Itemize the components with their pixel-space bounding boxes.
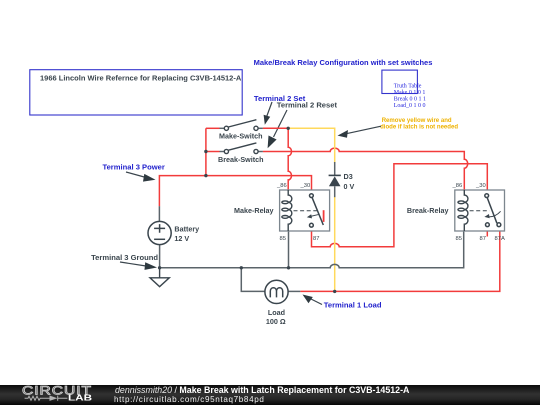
- svg-text:Terminal 1 Load: Terminal 1 Load: [324, 301, 382, 310]
- svg-text:Terminal 3 Ground: Terminal 3 Ground: [91, 253, 158, 262]
- junction node: make switch to yellow: [287, 127, 290, 130]
- truth table box: [382, 70, 418, 93]
- svg-text:_30: _30: [475, 183, 486, 189]
- svg-text:12 V: 12 V: [174, 234, 189, 243]
- wire: load right gray stub: [288, 290, 300, 292]
- wire: Make-Relay pin 85 to ground rail: [288, 231, 290, 268]
- wire: break-switch to Break-Relay pin 86 (hops yellow and node line): [263, 148, 468, 190]
- Make-Relay dashed link: [294, 210, 318, 212]
- svg-text:_30: _30: [300, 183, 311, 189]
- Break-Relay coil: [458, 190, 468, 231]
- CircuitLab logo: [0, 385, 100, 405]
- junction node: battery ground: [158, 266, 161, 269]
- svg-text:1966 Lincoln Wire Refernce for: 1966 Lincoln Wire Refernce for Replacing…: [40, 73, 242, 82]
- svg-text:_86: _86: [452, 183, 463, 189]
- wire: yellow latch wire below diode to load line: [334, 197, 336, 292]
- arrow Terminal 3 Power: [126, 172, 156, 182]
- yellow note text: Remove yellow wire: [380, 118, 458, 131]
- Break-Relay box: [455, 190, 505, 231]
- svg-text:85: 85: [280, 236, 286, 242]
- wire: ground rail (hops yellow) to Break-Relay pin 85: [160, 231, 464, 268]
- svg-text:Break-Relay: Break-Relay: [407, 206, 449, 215]
- wire: switch left vertical: [205, 128, 207, 175]
- svg-text:Truth Table: Truth Table: [394, 83, 422, 89]
- load lamp LOAD: [265, 280, 288, 303]
- svg-text:diode if latch is not needed: diode if latch is not needed: [380, 125, 458, 131]
- svg-text:Terminal 3 Power: Terminal 3 Power: [103, 162, 165, 171]
- junction node: load branch: [240, 266, 243, 269]
- make-switch SW1: [224, 120, 258, 131]
- battery V1: [148, 221, 171, 244]
- wire: break-switch right gray stub: [258, 151, 263, 153]
- svg-text:100 Ω: 100 Ω: [266, 317, 286, 326]
- svg-text:LAB: LAB: [68, 394, 92, 403]
- arrow Terminal 2 Reset: [268, 110, 287, 148]
- wire: battery top lead: [158, 206, 160, 221]
- Make-Relay coil: [282, 190, 292, 231]
- svg-text:_86: _86: [276, 183, 287, 189]
- svg-text:87: 87: [313, 236, 319, 242]
- arrow Terminal 2 Set: [264, 102, 272, 125]
- svg-text:D3: D3: [344, 172, 353, 181]
- wire: make-switch right lead to node: [258, 127, 263, 129]
- wire: load branch from ground rail: [241, 268, 265, 292]
- wire: load line to Break-Relay pin 87A: [300, 231, 500, 291]
- svg-text:Terminal 2 Reset: Terminal 2 Reset: [277, 101, 338, 110]
- Break-Relay pin labels: [452, 183, 505, 242]
- break-switch SW2: [224, 143, 258, 154]
- svg-text:Break-Switch: Break-Switch: [218, 155, 264, 164]
- junction node: make relay 85: [287, 266, 290, 269]
- footer text: [115, 385, 409, 395]
- Break-Relay actuate arrow: [484, 211, 500, 218]
- svg-text:Make/Break Relay Configuration: Make/Break Relay Configuration with set …: [254, 58, 433, 67]
- Break-Relay switch arm: [485, 194, 501, 227]
- arrow Terminal 3 Ground: [120, 262, 157, 270]
- svg-text:Make-Relay: Make-Relay: [234, 206, 274, 215]
- svg-text:87A: 87A: [495, 236, 505, 242]
- arrow Terminal 1 Load: [303, 295, 323, 305]
- svg-text:Load: Load: [268, 308, 285, 317]
- Make-Relay actuate arrow: [307, 214, 320, 218]
- footer bar: [0, 385, 540, 405]
- svg-text:Make-Switch: Make-Switch: [219, 131, 263, 140]
- svg-text:Battery: Battery: [174, 224, 199, 233]
- diode D3: [329, 162, 341, 197]
- Make-Relay switch arm: [310, 194, 324, 227]
- svg-text:85: 85: [456, 236, 462, 242]
- wire: Make-Relay pin 87 to Break-Relay pin 30: [312, 164, 488, 247]
- wire: yellow latch wire horizontal: [288, 128, 335, 163]
- truth table text: [394, 83, 426, 109]
- wire: break-switch left lead: [206, 151, 220, 153]
- svg-text:Remove yellow wire and: Remove yellow wire and: [382, 118, 452, 124]
- svg-text:0 V: 0 V: [344, 182, 355, 191]
- Make-Relay box: [280, 190, 330, 231]
- svg-text:Load_0 1 0 0: Load_0 1 0 0: [394, 103, 426, 109]
- junction node: break switch left: [204, 150, 207, 153]
- Make-Relay pin labels: [276, 183, 319, 242]
- junction node: yellow to load line: [333, 290, 336, 293]
- wire: make-switch left lead: [206, 127, 220, 129]
- ground symbol: [150, 268, 169, 287]
- Break-Relay dashed link: [470, 210, 490, 212]
- svg-text:Break 0 0 1 1: Break 0 0 1 1: [394, 97, 426, 103]
- Make-Relay contact red mark: [323, 210, 325, 222]
- wire: power rail from battery to Make-Relay pin 30: [159, 176, 311, 207]
- yellow note arrow: [338, 126, 382, 138]
- junction node: power rail: [204, 174, 207, 177]
- annotation box: 1966 Lincoln note: [30, 70, 242, 115]
- wire: make node down to Make-Relay pin 86 (hops break and power lines): [288, 128, 291, 190]
- wire: battery bottom lead: [159, 245, 161, 268]
- svg-text:87: 87: [480, 236, 486, 242]
- svg-text:Make 0 1 0 1: Make 0 1 0 1: [394, 90, 426, 96]
- wire: Break-Relay pin 87 stub: [486, 231, 488, 237]
